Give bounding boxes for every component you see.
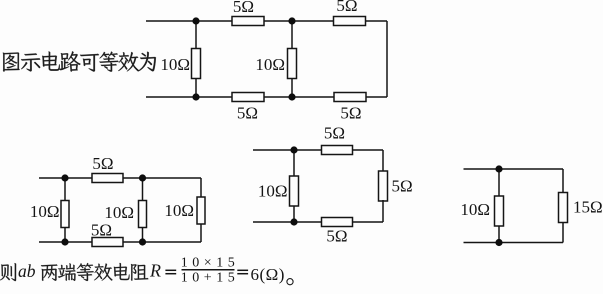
wire: circuit1 right vertical [386,21,388,97]
node: circuit1 bottom-mid junction [288,93,295,100]
svg-text:5Ω: 5Ω [91,221,112,240]
svg-text:5Ω: 5Ω [326,227,347,246]
node: circuit2 top-left junction [61,174,68,181]
wire: circuit3 top rail right segment [353,149,384,151]
svg-text:ab: ab [18,261,36,281]
svg-text:6(Ω): 6(Ω) [251,265,285,284]
wire: circuit3 bottom rail left segment [253,221,322,223]
fraction bar [182,269,235,271]
wire: circuit1 top rail left segment [146,20,232,22]
wire: circuit4 bottom rail [464,242,564,244]
resistor 5Ω bottom-right (circuit1) [334,93,366,102]
node: circuit4 bottom junction [495,239,502,246]
node: circuit2 top-mid junction [139,174,146,181]
wire: circuit3 right vertical upper [382,150,384,172]
ideographic full stop [287,279,293,285]
resistor 5Ω top-right (circuit1) [334,17,366,26]
resistor 15Ω right branch (circuit4) [559,193,568,223]
caption: 图示电路可等效为 [3,51,156,71]
svg-text:15Ω: 15Ω [573,198,603,217]
svg-text:R: R [149,261,161,281]
wire: circuit2 right vertical upper [200,178,202,198]
svg-text:10Ω: 10Ω [258,182,288,201]
resistor 5Ω right branch (circuit3) [379,171,388,201]
node: circuit1 top-left junction [192,17,199,24]
wire: circuit1 bottom rail mid segment [264,96,334,98]
wire: circuit2 bottom rail left segment [39,241,92,243]
wire: circuit1 top rail right segment [366,20,388,22]
wire: circuit2 left shunt branch [64,178,66,242]
node: circuit4 top junction [495,165,502,172]
svg-text:10×15: 10×15 [181,256,239,271]
wire: circuit2 right vertical lower [200,224,202,242]
wire: circuit2 mid shunt branch [142,178,144,242]
wire: circuit3 shunt branch [293,150,295,222]
node: circuit2 bottom-mid junction [139,238,146,245]
resistor 5Ω bottom-left (circuit1) [232,93,264,102]
svg-text:5Ω: 5Ω [336,0,357,15]
resistor 10Ω left shunt (circuit1) [192,49,201,79]
svg-text:10Ω: 10Ω [104,203,134,222]
wire: circuit1 mid shunt branch [291,21,293,97]
resistor 10Ω shunt (circuit3) [290,176,299,206]
wire: circuit2 top rail left segment [39,177,92,179]
resistor 10Ω left shunt (circuit2) [61,201,69,228]
resistor 10Ω shunt (circuit4) [495,196,504,226]
formula: 则 ab 两端等效电阻 R = 10×15/10+15 = 6(Ω)。 [0,263,16,281]
node: circuit3 bottom junction [290,218,297,225]
wire: circuit2 bottom rail right segment [123,241,201,243]
node: circuit3 top junction [290,146,297,153]
resistor 10Ω mid shunt (circuit2) [139,201,147,228]
resistor 5Ω top (circuit2) [92,174,123,183]
resistor 10Ω mid shunt (circuit1) [288,49,297,79]
node: circuit1 bottom-left junction [192,93,199,100]
wire: circuit1 bottom rail right segment [366,96,387,98]
svg-text:5Ω: 5Ω [92,154,113,173]
svg-text:10Ω: 10Ω [164,201,194,220]
resistor 5Ω bottom (circuit2) [92,238,123,247]
svg-text:5Ω: 5Ω [340,104,361,123]
node: circuit1 top-mid junction [288,17,295,24]
wire: circuit4 top rail [464,168,564,170]
svg-text:10Ω: 10Ω [160,55,190,74]
wire: circuit3 top rail left segment [253,149,322,151]
resistor 5Ω bottom (circuit3) [322,218,353,227]
wire: circuit3 bottom rail right segment [353,221,384,223]
wire: circuit2 top rail right segment [123,177,201,179]
svg-text:10Ω: 10Ω [460,200,490,219]
svg-text:10+15: 10+15 [181,271,239,286]
svg-text:5Ω: 5Ω [392,177,413,196]
wire: circuit1 left shunt branch [195,21,197,97]
node: circuit2 bottom-left junction [61,238,68,245]
svg-text:5Ω: 5Ω [233,0,254,16]
svg-text:5Ω: 5Ω [324,124,345,143]
svg-text:10Ω: 10Ω [30,202,60,221]
resistor 5Ω top-left (circuit1) [232,17,264,26]
svg-text:10Ω: 10Ω [255,55,285,74]
wire: circuit4 right vertical lower [562,223,564,243]
resistor 10Ω right branch (circuit2) [197,197,205,224]
resistor 5Ω top (circuit3) [322,146,353,155]
svg-text:5Ω: 5Ω [237,104,258,123]
wire: circuit3 right vertical lower [382,200,384,222]
wire: circuit1 top rail mid segment [264,20,334,22]
wire: circuit4 shunt branch [498,169,500,243]
wire: circuit1 bottom rail left segment [146,96,232,98]
wire: circuit4 right vertical upper [562,169,564,193]
